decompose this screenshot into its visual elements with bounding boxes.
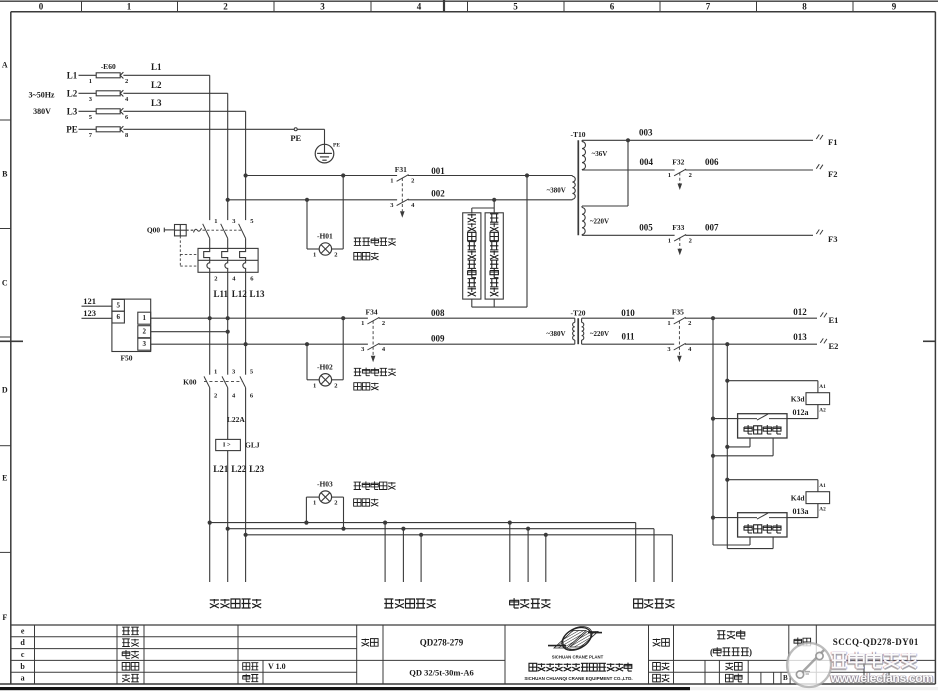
svg-text:F34: F34 — [366, 308, 378, 317]
svg-text:~380V: ~380V — [547, 187, 566, 195]
svg-text:~220V: ~220V — [590, 330, 609, 338]
svg-text:L11: L11 — [214, 289, 229, 299]
svg-text:001: 001 — [431, 166, 445, 176]
svg-text:F2: F2 — [828, 169, 837, 179]
svg-text:4: 4 — [125, 96, 129, 103]
svg-text:-T10: -T10 — [571, 130, 586, 139]
svg-text:7: 7 — [89, 132, 93, 139]
svg-text:013: 013 — [793, 332, 807, 342]
svg-text:-H01: -H01 — [317, 232, 333, 241]
svg-text:K4d: K4d — [791, 493, 806, 502]
svg-text:L1: L1 — [151, 62, 162, 72]
svg-text:L22A: L22A — [227, 415, 246, 424]
svg-text:004: 004 — [639, 157, 653, 167]
svg-text:L13: L13 — [250, 289, 266, 299]
svg-text:6: 6 — [250, 276, 254, 283]
svg-text:3: 3 — [89, 96, 93, 103]
svg-text:8: 8 — [802, 2, 807, 12]
svg-text:5: 5 — [116, 301, 120, 309]
svg-text:3: 3 — [232, 218, 236, 225]
svg-text:2: 2 — [334, 382, 337, 389]
svg-text:008: 008 — [431, 308, 445, 318]
svg-text:C: C — [2, 279, 8, 288]
svg-text:I >: I > — [223, 442, 231, 449]
svg-text:L3: L3 — [67, 106, 78, 116]
svg-text:1: 1 — [214, 218, 217, 225]
svg-text:006: 006 — [705, 157, 719, 167]
svg-text:L2: L2 — [67, 88, 78, 98]
svg-text:002: 002 — [431, 188, 445, 198]
svg-text:-E60: -E60 — [101, 62, 116, 71]
svg-text:1: 1 — [313, 252, 316, 259]
svg-text:V 1.0: V 1.0 — [268, 662, 286, 671]
svg-text:1: 1 — [313, 382, 316, 389]
svg-text:SICHUAN CRANE PLANT: SICHUAN CRANE PLANT — [552, 654, 604, 659]
svg-text:009: 009 — [431, 334, 445, 344]
svg-text:L12: L12 — [232, 289, 248, 299]
svg-text:123: 123 — [83, 308, 96, 318]
svg-text:003: 003 — [639, 128, 653, 138]
svg-text:2: 2 — [142, 328, 146, 336]
svg-text:GLJ: GLJ — [245, 441, 260, 450]
svg-text:F: F — [2, 613, 7, 622]
svg-text:L2: L2 — [151, 80, 162, 90]
svg-text:): ) — [749, 647, 752, 657]
svg-text:5: 5 — [89, 114, 93, 121]
svg-text:E1: E1 — [829, 315, 839, 325]
svg-text:-H02: -H02 — [317, 362, 333, 371]
svg-text:F1: F1 — [828, 137, 837, 147]
svg-text:2: 2 — [214, 392, 217, 399]
svg-text:6: 6 — [125, 114, 129, 121]
svg-text:F35: F35 — [672, 308, 684, 317]
svg-text:QD278-279: QD278-279 — [420, 637, 464, 647]
svg-text:2: 2 — [223, 2, 228, 12]
svg-text:PE: PE — [333, 142, 340, 148]
svg-text:(: ( — [710, 647, 713, 657]
svg-text:1: 1 — [361, 320, 364, 327]
svg-text:1: 1 — [668, 172, 671, 179]
svg-text:1: 1 — [313, 500, 316, 507]
svg-text:F33: F33 — [672, 223, 684, 232]
svg-text:1: 1 — [668, 237, 671, 244]
svg-text:3: 3 — [390, 202, 394, 209]
svg-text:4: 4 — [417, 2, 422, 12]
svg-text:F32: F32 — [672, 158, 684, 167]
svg-text:4: 4 — [688, 346, 692, 353]
svg-text:A2: A2 — [819, 408, 826, 414]
svg-text:1: 1 — [667, 320, 670, 327]
svg-text:6: 6 — [610, 2, 615, 12]
svg-text:L22: L22 — [231, 464, 247, 474]
svg-text:5: 5 — [513, 2, 518, 12]
svg-text:011: 011 — [621, 332, 635, 342]
svg-text:4: 4 — [411, 202, 415, 209]
svg-text:3: 3 — [667, 346, 671, 353]
svg-text:e: e — [21, 626, 25, 635]
svg-text:F31: F31 — [395, 165, 407, 174]
svg-text:2: 2 — [688, 320, 691, 327]
svg-text:3: 3 — [361, 346, 365, 353]
svg-text:2: 2 — [334, 500, 337, 507]
svg-text:2: 2 — [334, 252, 337, 259]
svg-text:b: b — [20, 662, 25, 671]
svg-text:3~50Hz: 3~50Hz — [29, 91, 55, 100]
svg-text:L23: L23 — [249, 464, 265, 474]
svg-text:B: B — [783, 674, 788, 682]
svg-text:QD 32/5t-30m-A6: QD 32/5t-30m-A6 — [409, 667, 473, 677]
svg-text:4: 4 — [232, 392, 236, 399]
svg-text:A1: A1 — [819, 483, 826, 489]
svg-text:380V: 380V — [33, 107, 51, 116]
svg-text:A: A — [2, 61, 8, 70]
svg-text:A2: A2 — [819, 507, 826, 513]
svg-text:6: 6 — [250, 392, 254, 399]
svg-text:1: 1 — [127, 2, 132, 12]
svg-text:~220V: ~220V — [590, 218, 609, 226]
svg-text:L1: L1 — [67, 70, 78, 80]
svg-text:www.elecfans.com: www.elecfans.com — [830, 671, 934, 685]
svg-text:K3d: K3d — [791, 394, 806, 403]
svg-text:B: B — [2, 170, 8, 179]
svg-text:1: 1 — [214, 368, 217, 375]
svg-text:4: 4 — [382, 346, 386, 353]
svg-text:A1: A1 — [819, 384, 826, 390]
svg-text:4: 4 — [232, 276, 236, 283]
svg-text:2: 2 — [689, 237, 692, 244]
svg-text:F3: F3 — [828, 234, 837, 244]
svg-text:010: 010 — [621, 308, 635, 318]
svg-text:SICHUAN CHUANQI CRANE EQUIPMEN: SICHUAN CHUANQI CRANE EQUIPMENT CO.,LTD. — [524, 676, 632, 681]
svg-text:012a: 012a — [793, 408, 809, 417]
svg-text:5: 5 — [250, 368, 254, 375]
svg-text:Q00: Q00 — [147, 225, 161, 234]
svg-text:~380V: ~380V — [546, 330, 565, 338]
svg-text:005: 005 — [639, 222, 653, 232]
svg-text:2: 2 — [689, 172, 692, 179]
svg-text:6: 6 — [116, 313, 120, 321]
svg-text:012: 012 — [793, 307, 807, 317]
svg-text:SCCQ-QD278-DY01: SCCQ-QD278-DY01 — [833, 637, 919, 647]
svg-text:3: 3 — [320, 2, 325, 12]
svg-text:1: 1 — [89, 78, 92, 85]
svg-text:013a: 013a — [793, 507, 809, 516]
svg-text:2: 2 — [214, 276, 217, 283]
svg-text:3: 3 — [232, 368, 236, 375]
svg-text:PE: PE — [66, 124, 78, 134]
svg-text:E2: E2 — [829, 341, 839, 351]
svg-text:D: D — [2, 386, 8, 395]
svg-text:2: 2 — [382, 320, 385, 327]
svg-text:E: E — [2, 474, 7, 483]
svg-text:5: 5 — [250, 218, 254, 225]
svg-text:007: 007 — [705, 222, 719, 232]
svg-text:L3: L3 — [151, 98, 162, 108]
svg-text:a: a — [21, 674, 25, 683]
svg-text:8: 8 — [125, 132, 129, 139]
svg-text:2: 2 — [125, 78, 128, 85]
svg-text:F50: F50 — [120, 354, 132, 363]
svg-text:~36V: ~36V — [592, 150, 608, 158]
svg-text:PE: PE — [290, 133, 301, 143]
svg-text:-T20: -T20 — [571, 309, 586, 318]
svg-text:-H03: -H03 — [317, 480, 333, 489]
svg-text:K00: K00 — [183, 378, 197, 387]
svg-text:121: 121 — [83, 296, 96, 306]
svg-text:0: 0 — [39, 2, 44, 12]
svg-text:L21: L21 — [213, 464, 229, 474]
svg-text:9: 9 — [892, 2, 897, 12]
svg-text:d: d — [20, 638, 25, 647]
svg-text:1: 1 — [142, 314, 146, 322]
svg-text:1: 1 — [390, 178, 393, 185]
svg-text:3: 3 — [142, 340, 146, 348]
svg-text:2: 2 — [411, 178, 414, 185]
svg-text:c: c — [21, 650, 25, 659]
svg-text:7: 7 — [706, 2, 711, 12]
